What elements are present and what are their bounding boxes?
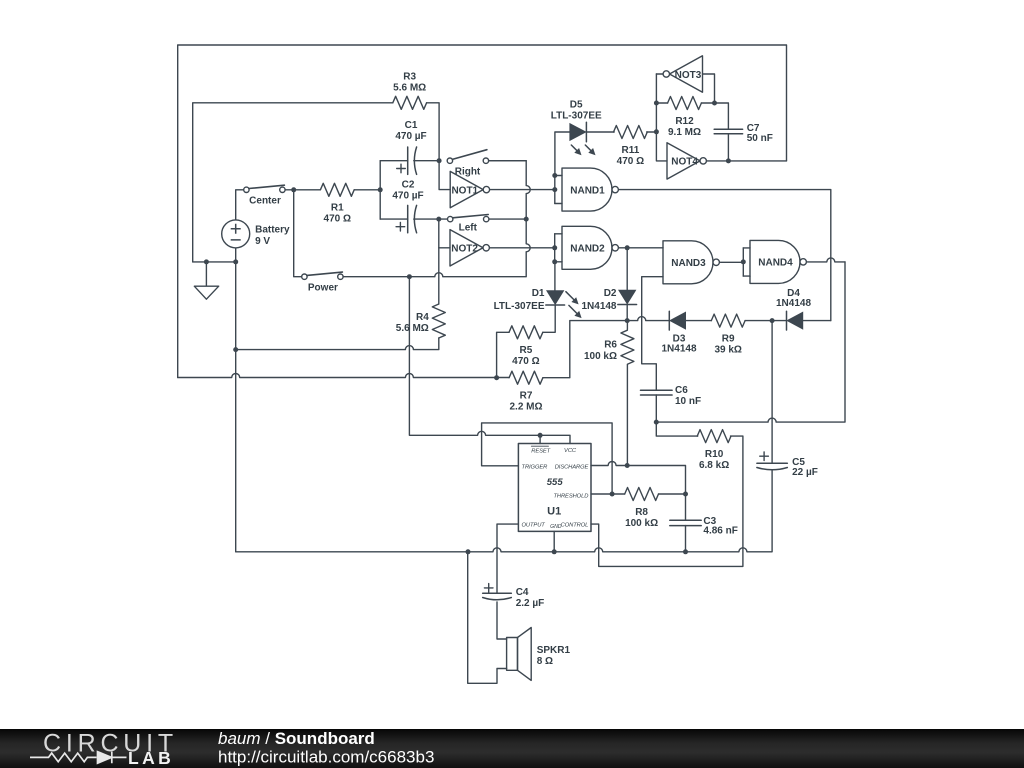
footer bar bbox=[0, 729, 1024, 768]
wire NAND1 input bus bbox=[554, 176, 556, 204]
svg-text:50 nF: 50 nF bbox=[747, 133, 773, 144]
inverter NOT3 bbox=[663, 56, 702, 92]
NAND gate NAND2 bbox=[562, 226, 618, 269]
switch Center bbox=[244, 185, 285, 207]
svg-text:8 Ω: 8 Ω bbox=[537, 656, 553, 667]
wire D5 anode lead down to NAND1 node bbox=[555, 132, 570, 176]
wire R4 top to Left-switch node, NOT2 input tap bbox=[438, 219, 440, 304]
svg-text:C6: C6 bbox=[675, 385, 688, 396]
junction bbox=[494, 375, 499, 380]
wire C3 bottom lead bbox=[685, 526, 687, 552]
wire D1 anode from NAND2 node bbox=[554, 262, 556, 291]
svg-text:NOT4: NOT4 bbox=[671, 157, 698, 168]
wire D5 cathode to R11 bbox=[586, 131, 614, 133]
junction bbox=[654, 101, 659, 106]
capacitor C7 50nF bbox=[714, 123, 773, 144]
svg-text:470 µF: 470 µF bbox=[395, 131, 426, 142]
wire C2 left lead bbox=[380, 218, 408, 220]
svg-text:9 V: 9 V bbox=[255, 236, 270, 247]
junction bbox=[204, 259, 209, 264]
wire R8 right to C3 bbox=[659, 494, 686, 520]
junction bbox=[654, 129, 659, 134]
svg-text:TRIGGER: TRIGGER bbox=[522, 464, 549, 470]
svg-text:SPKR1: SPKR1 bbox=[537, 645, 571, 656]
svg-text:R6: R6 bbox=[604, 339, 617, 350]
wire power rail and supply riser bbox=[343, 161, 530, 277]
svg-text:6.8 kΩ: 6.8 kΩ bbox=[699, 460, 729, 471]
svg-text:2.2 µF: 2.2 µF bbox=[516, 598, 545, 609]
junction bbox=[683, 549, 688, 554]
junction bbox=[233, 259, 238, 264]
switch Right bbox=[447, 150, 488, 178]
wire R6 bottom lead to discharge row bbox=[626, 365, 628, 466]
svg-text:baum / Soundboard: baum / Soundboard bbox=[218, 729, 375, 748]
svg-text:39 kΩ: 39 kΩ bbox=[714, 344, 741, 355]
svg-text:1N4148: 1N4148 bbox=[581, 301, 616, 312]
wire R9 to D4 bbox=[745, 320, 786, 322]
wire reset/vcc supply from power rail bbox=[409, 277, 570, 444]
wire NOT3 input from R12 right node bbox=[703, 74, 715, 103]
resistor R6 100 kΩ bbox=[584, 330, 634, 364]
wire C1 right lead bbox=[414, 160, 439, 162]
svg-text:4.86 nF: 4.86 nF bbox=[703, 526, 737, 537]
wire R12 left lead bbox=[656, 102, 667, 104]
svg-text:THRESHOLD: THRESHOLD bbox=[553, 494, 588, 500]
resistor R3 5.6 MΩ bbox=[393, 72, 427, 110]
resistor R5 470 Ω bbox=[509, 326, 543, 367]
NAND gate NAND3 bbox=[663, 241, 719, 284]
capacitor C5 22µF bbox=[757, 452, 818, 478]
resistor R7 2.2 MΩ bbox=[509, 371, 543, 412]
resistor R9 39 kΩ bbox=[711, 314, 745, 355]
wire NAND2 output to NAND3 input, D2 tap bbox=[619, 247, 663, 249]
svg-text:NOT2: NOT2 bbox=[451, 244, 478, 255]
wire NAND3 output to NAND4 inputs bbox=[720, 261, 743, 263]
svg-text:U1: U1 bbox=[547, 506, 561, 518]
svg-text:R4: R4 bbox=[416, 312, 429, 323]
svg-text:DISCHARGE: DISCHARGE bbox=[555, 464, 589, 470]
svg-text:470 Ω: 470 Ω bbox=[617, 156, 644, 167]
svg-text:5.6 MΩ: 5.6 MΩ bbox=[393, 83, 426, 94]
wire CONTROL to R10 right bbox=[591, 436, 743, 566]
resistor R1 470 Ω bbox=[320, 183, 354, 224]
svg-text:NAND4: NAND4 bbox=[758, 258, 793, 269]
wire NAND2 input stub A bbox=[555, 233, 562, 235]
junction bbox=[552, 245, 557, 250]
junction bbox=[466, 549, 471, 554]
wire C4 to speaker bbox=[497, 602, 507, 639]
svg-text:RESET: RESET bbox=[531, 449, 550, 455]
diode D2 1N4148 bbox=[581, 288, 636, 312]
wire NAND1 output to D4 corner bbox=[619, 190, 831, 321]
wire left rail y377 to R7 bbox=[178, 374, 509, 378]
resistor R8 100 kΩ bbox=[625, 488, 659, 529]
wire D2 cathode to diode row bbox=[626, 305, 628, 321]
svg-text:R9: R9 bbox=[722, 333, 735, 344]
wire speaker return loop bbox=[468, 552, 507, 684]
junction bbox=[552, 187, 557, 192]
svg-text:R1: R1 bbox=[331, 203, 344, 214]
ground symbol bbox=[194, 262, 218, 299]
diode D1 LED LTL-307EE bbox=[494, 288, 582, 318]
wire NAND2 input bus bbox=[554, 234, 556, 262]
junction bbox=[625, 463, 630, 468]
svg-text:CONTROL: CONTROL bbox=[561, 523, 589, 529]
wire NOT3/NOT4 left bus bbox=[656, 74, 667, 161]
junction bbox=[770, 318, 775, 323]
svg-text:470 Ω: 470 Ω bbox=[324, 214, 351, 225]
junction bbox=[552, 173, 557, 178]
svg-text:LAB: LAB bbox=[128, 748, 174, 768]
svg-text:NAND1: NAND1 bbox=[570, 185, 605, 196]
wire D2 anode bbox=[626, 248, 628, 290]
junction bbox=[436, 217, 441, 222]
svg-text:10 nF: 10 nF bbox=[675, 396, 701, 407]
junction bbox=[552, 549, 557, 554]
wire NOT4 output to border bbox=[707, 160, 787, 162]
wire R10 left to C6 rail bbox=[656, 422, 697, 436]
wire R6 top lead bbox=[626, 321, 628, 330]
svg-text:NAND2: NAND2 bbox=[570, 244, 605, 255]
junction bbox=[291, 187, 296, 192]
svg-text:470 µF: 470 µF bbox=[392, 191, 423, 202]
555 timer U1 bbox=[518, 444, 591, 532]
diode D4 1N4148 bbox=[776, 288, 811, 330]
svg-text:Left: Left bbox=[459, 223, 478, 234]
junction bbox=[233, 347, 238, 352]
wire NOT3 output lead bbox=[656, 73, 663, 75]
wire NAND4 input stub B bbox=[743, 275, 750, 277]
wire C6 rail to NAND4 output bbox=[656, 262, 845, 422]
wire threshold to R8 bbox=[591, 493, 625, 495]
wire C2 right lead to left switch bbox=[414, 218, 448, 220]
inverter NOT4 bbox=[667, 143, 706, 179]
inverter NOT1 bbox=[450, 171, 489, 207]
svg-text:100 kΩ: 100 kΩ bbox=[584, 351, 617, 362]
inverter NOT2 bbox=[450, 230, 489, 266]
svg-text:9.1 MΩ: 9.1 MΩ bbox=[668, 127, 701, 138]
svg-text:1N4148: 1N4148 bbox=[661, 344, 696, 355]
wire C1 left lead bbox=[380, 160, 408, 162]
wire NAND1 input stub B bbox=[555, 203, 562, 205]
switch Left bbox=[448, 215, 489, 234]
junction bbox=[683, 492, 688, 497]
wire D1 cathode to R5 right bbox=[543, 305, 555, 332]
svg-text:100 kΩ: 100 kΩ bbox=[625, 518, 658, 529]
junction bbox=[625, 245, 630, 250]
svg-text:Battery: Battery bbox=[255, 225, 290, 236]
wire GND stub bbox=[553, 531, 555, 551]
wire NAND4 output bbox=[807, 258, 845, 262]
svg-text:R7: R7 bbox=[520, 391, 533, 402]
junction bbox=[437, 158, 442, 163]
svg-text:555: 555 bbox=[547, 477, 564, 488]
capacitor C6 10nF bbox=[641, 385, 702, 407]
resistor R4 5.6 MΩ bbox=[396, 304, 446, 338]
wire bottom ground rail bbox=[236, 470, 772, 552]
svg-text:NOT3: NOT3 bbox=[675, 70, 702, 81]
wire R3 left branch from ground row bbox=[193, 103, 393, 262]
wire NAND4 input stub A bbox=[743, 247, 750, 249]
wire R4 bottom rail to battery bbox=[236, 338, 439, 350]
wire R7 right up to diode row, to D3 bbox=[543, 317, 669, 378]
junction bbox=[610, 492, 615, 497]
wire C7 bottom lead bbox=[727, 134, 729, 161]
wire C6 bottom lead bbox=[655, 395, 657, 422]
svg-text:LTL-307EE: LTL-307EE bbox=[551, 111, 602, 122]
svg-text:C4: C4 bbox=[516, 587, 529, 598]
svg-text:1N4148: 1N4148 bbox=[776, 298, 811, 309]
wire NOT2 output to NAND2 inputs bbox=[490, 247, 555, 249]
svg-text:http://circuitlab.com/c6683b3: http://circuitlab.com/c6683b3 bbox=[218, 748, 434, 767]
wire NAND4 input bus bbox=[742, 248, 744, 276]
junction bbox=[726, 158, 731, 163]
diode D5 LED LTL-307EE bbox=[551, 100, 602, 156]
svg-text:Power: Power bbox=[308, 283, 338, 294]
svg-text:R12: R12 bbox=[675, 116, 694, 127]
capacitor C2 470µF bbox=[392, 179, 423, 233]
wire NOT1 output to NAND1 inputs bbox=[490, 189, 555, 191]
wire right switch to supply riser bbox=[489, 160, 527, 162]
resistor R12 9.1 MΩ bbox=[668, 97, 702, 138]
wire R12 right lead bbox=[701, 102, 714, 104]
NAND gate NAND4 bbox=[750, 240, 806, 283]
speaker SPKR1 8Ω bbox=[507, 628, 571, 681]
wire battery plus lead bbox=[236, 190, 244, 220]
svg-text:NAND3: NAND3 bbox=[671, 258, 706, 269]
wire center switch to R1 bbox=[285, 189, 320, 191]
svg-text:R5: R5 bbox=[520, 345, 533, 356]
wire outer border loop bbox=[178, 45, 787, 378]
wire R3 right to C1/NOT1 node bbox=[427, 103, 451, 190]
resistor R10 6.8 kΩ bbox=[697, 430, 731, 471]
svg-text:LTL-307EE: LTL-307EE bbox=[494, 301, 545, 312]
wire OUTPUT to C4 bbox=[497, 524, 518, 593]
switch Power bbox=[302, 272, 343, 293]
wire ground row bbox=[193, 261, 236, 263]
junction bbox=[712, 101, 717, 106]
capacitor C4 2.2µF bbox=[483, 584, 545, 610]
wire trigger-threshold link bbox=[482, 423, 612, 494]
svg-text:D5: D5 bbox=[570, 100, 583, 111]
wire left switch to supply riser bbox=[489, 218, 526, 220]
svg-text:R8: R8 bbox=[635, 507, 648, 518]
svg-text:VCC: VCC bbox=[564, 448, 577, 454]
svg-text:Center: Center bbox=[249, 196, 281, 207]
svg-text:R11: R11 bbox=[622, 145, 640, 156]
wire NOT2 input stub bbox=[439, 247, 450, 249]
svg-text:C1: C1 bbox=[405, 120, 418, 131]
wire NAND1 input stub A bbox=[555, 175, 562, 177]
wire C5 branch from diode row bbox=[771, 321, 773, 464]
NAND gate NAND1 bbox=[562, 168, 618, 211]
junction bbox=[625, 318, 630, 323]
junction bbox=[538, 433, 543, 438]
wire R5 left down to R7 rail bbox=[497, 332, 510, 377]
diode D3 1N4148 bbox=[661, 311, 696, 354]
resistor R11 470 Ω bbox=[614, 126, 648, 167]
svg-text:D1: D1 bbox=[532, 288, 545, 299]
junction bbox=[741, 259, 746, 264]
capacitor C1 470µF bbox=[395, 120, 426, 174]
svg-text:NOT1: NOT1 bbox=[451, 185, 478, 196]
wire D4 to NAND1-output vertical bbox=[803, 320, 831, 322]
svg-text:R10: R10 bbox=[705, 449, 724, 460]
battery V1 9V bbox=[222, 220, 290, 248]
logo resistor-diode glyph bbox=[30, 752, 127, 764]
svg-text:R3: R3 bbox=[403, 72, 416, 83]
wire C7 top lead bbox=[715, 103, 729, 129]
capacitor C3 4.86nF bbox=[670, 516, 738, 537]
wire NAND3 lower input to C6 bbox=[642, 277, 663, 391]
wire NAND2 input stub B bbox=[555, 261, 562, 263]
wire power switch left leg bbox=[294, 190, 302, 277]
junction bbox=[524, 217, 529, 222]
svg-text:470 Ω: 470 Ω bbox=[512, 356, 539, 367]
svg-text:2.2 MΩ: 2.2 MΩ bbox=[509, 402, 542, 413]
wire C1/C2 left vertical bbox=[379, 161, 381, 219]
wire R11 to NOT3/NOT4 bus bbox=[647, 131, 657, 133]
junction bbox=[552, 259, 557, 264]
wire RESET stub bbox=[539, 435, 541, 443]
junction bbox=[654, 420, 659, 425]
wire D3 to R9 bbox=[686, 320, 711, 322]
junction bbox=[407, 274, 412, 279]
svg-text:5.6 MΩ: 5.6 MΩ bbox=[396, 323, 429, 334]
wire battery minus vertical down to bottom rail bbox=[235, 248, 237, 552]
wire R1 to C1/C2 node bbox=[354, 189, 380, 191]
svg-text:22 µF: 22 µF bbox=[792, 467, 818, 478]
svg-text:C2: C2 bbox=[402, 179, 415, 190]
junction bbox=[378, 187, 383, 192]
svg-text:OUTPUT: OUTPUT bbox=[522, 523, 546, 529]
wire discharge row bbox=[591, 462, 686, 495]
svg-text:D2: D2 bbox=[604, 288, 617, 299]
